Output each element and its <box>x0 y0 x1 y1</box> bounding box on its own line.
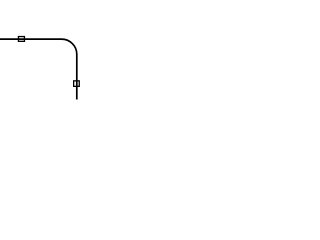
fuse F2 <box>74 81 80 87</box>
fuse F1 <box>18 37 24 42</box>
wire <box>0 39 77 99</box>
